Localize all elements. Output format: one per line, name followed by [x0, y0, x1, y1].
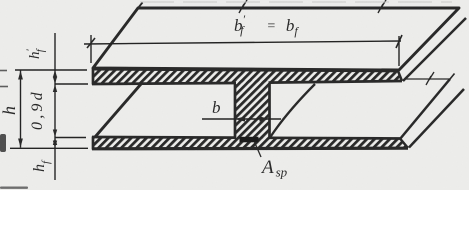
dimension line h: [20, 71, 22, 148]
extension line left of b'f: [90, 35, 92, 63]
top flange front face top edge: [93, 69, 398, 71]
extension line top of bottom flange (y=137.5): [55, 137, 86, 139]
bottom flange front face top edge (left of web): [92, 136, 236, 139]
arrowheads of b: [235, 116, 245, 121]
bottom flange front face (hatched cross-section): [93, 137, 408, 149]
scan artifact: left edge blob: [0, 134, 6, 152]
oblique tick left end of b'f: [87, 38, 95, 48]
arrowheads of hf: [53, 138, 57, 146]
extension line top of section (y=70): [15, 69, 87, 71]
top flange front face left edge: [92, 68, 95, 85]
reinforcement bar A_sp (blackened): [240, 137, 259, 143]
dimension line column h'f / 0,9d / hf: [54, 33, 56, 180]
oblique tick right end of b'f: [396, 35, 402, 48]
bottom flange front face top edge (right of web): [269, 136, 401, 139]
arrowheads of h'f: [53, 70, 57, 78]
top flange right cut end lower edge: [403, 18, 466, 81]
scan artifact: top edge line: [140, 1, 452, 3]
web right edge: [268, 83, 271, 138]
leader line of A_sp: [255, 142, 262, 157]
top flange front face right cap: [398, 71, 402, 81]
dimension line b (web width): [202, 118, 281, 120]
break mark on bottom flange back edge: [426, 72, 434, 85]
bottom flange left edge (top surface): [95, 84, 141, 137]
paper grain overlay: [0, 0, 469, 190]
bottom flange front face right cap: [400, 139, 408, 149]
bottom flange right cut end lower edge: [409, 89, 464, 148]
web front face (hatched cross-section): [235, 80, 270, 139]
bottom flange right cut end upper edge: [400, 79, 450, 139]
extension line bottom of top flange (y=84): [55, 83, 88, 85]
top flange front face bottom edge (right of web): [269, 81, 403, 83]
break mark on top flange back edge: [239, 0, 247, 13]
bottom flange back edge (seen through gap): [406, 78, 450, 80]
extension line right of b'f: [398, 36, 400, 66]
web left edge: [234, 84, 237, 138]
top flange top surface: [93, 8, 459, 70]
scan artifact: bottom left streak: [0, 187, 28, 189]
second break mark on top flange back edge: [378, 0, 386, 13]
web receding edge on bottom flange: [270, 84, 315, 138]
bottom flange front face left edge: [92, 137, 95, 150]
apex overshoot at back-left corner: [138, 3, 143, 9]
bottom flange front face bottom edge: [92, 147, 408, 151]
dimension line b'f (on top surface): [84, 41, 401, 44]
top flange front face (hatched cross-section): [93, 69, 402, 84]
top flange front face bottom edge (left of web): [92, 83, 236, 84]
overshoot at bottom flange back-right corner: [450, 74, 455, 80]
arrowheads of h: [18, 71, 23, 80]
scan artifact: left edge dashes: [0, 70, 7, 72]
arrowheads of 0,9d: [53, 85, 57, 93]
extension line bottom of section (y=148): [10, 147, 88, 149]
